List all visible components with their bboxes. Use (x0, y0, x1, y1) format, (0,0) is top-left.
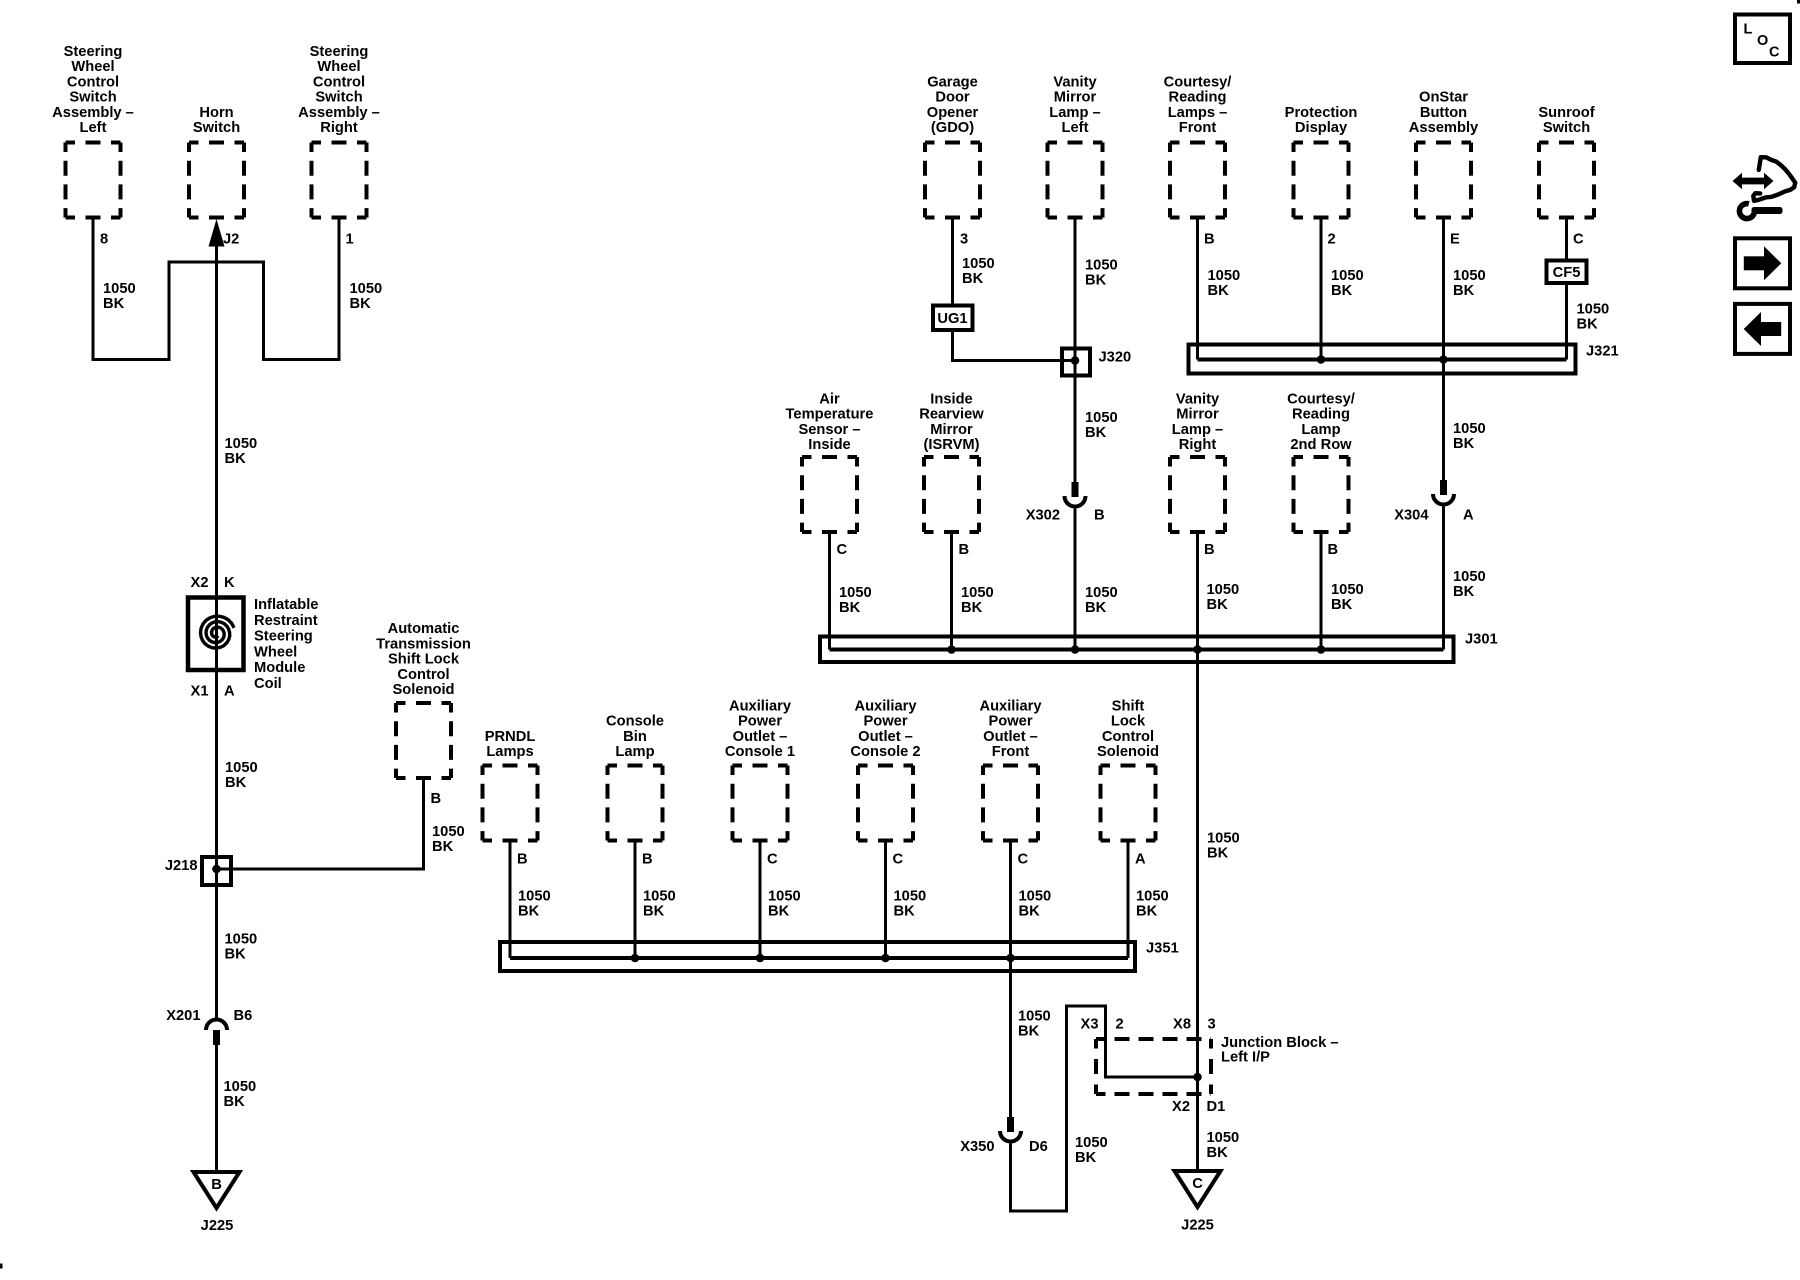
svg-text:1050: 1050 (225, 436, 258, 452)
wire label 1050 BK courtesy front (1208, 268, 1241, 299)
junction dot J351 aux console 1 (756, 954, 765, 963)
svg-text:BK: BK (1136, 904, 1158, 920)
component Garage Door Opener (GDO) (925, 74, 980, 217)
svg-text:D6: D6 (1029, 1139, 1048, 1155)
svg-text:Console 1: Console 1 (725, 744, 795, 760)
svg-text:Restraint: Restraint (254, 613, 318, 629)
wire label 1050 BK air temp (839, 585, 872, 616)
svg-text:X302: X302 (1026, 508, 1060, 524)
svg-text:1050: 1050 (894, 889, 927, 905)
svg-text:OnStar: OnStar (1419, 90, 1468, 106)
svg-text:D1: D1 (1207, 1099, 1226, 1115)
svg-text:Coil: Coil (254, 676, 282, 692)
svg-text:1050: 1050 (839, 585, 872, 601)
wire air temp to J301 (828, 532, 831, 650)
svg-text:Button: Button (1420, 105, 1467, 121)
wire label 1050 BK aux front (1019, 889, 1052, 920)
wire junction block to ground J225 C (1196, 1077, 1199, 1171)
svg-text:BK: BK (1331, 597, 1353, 613)
junction dot J321 onstar (1439, 355, 1448, 364)
wire label 1050 BK vanity left lower (1085, 585, 1118, 616)
splice J320 (1062, 349, 1131, 376)
svg-text:Lamp –: Lamp – (1049, 105, 1100, 121)
svg-text:J351: J351 (1146, 941, 1179, 957)
svg-text:Lamp: Lamp (615, 744, 654, 760)
svg-text:BK: BK (224, 1094, 246, 1110)
svg-text:Switch: Switch (193, 120, 240, 136)
wire label 1050 BK below J218 (225, 932, 258, 963)
svg-text:Control: Control (313, 74, 365, 90)
svg-text:C: C (837, 542, 848, 558)
wire label 1050 BK vanity left upper (1085, 258, 1118, 289)
svg-text:(GDO): (GDO) (931, 120, 974, 136)
svg-text:E: E (1450, 232, 1460, 248)
svg-text:Front: Front (992, 744, 1030, 760)
svg-text:1050: 1050 (1208, 268, 1241, 284)
svg-text:X3: X3 (1081, 1017, 1099, 1033)
svg-text:BK: BK (225, 775, 247, 791)
wire label 1050 BK shift lock (1136, 889, 1169, 920)
svg-text:Console: Console (606, 714, 664, 730)
wire CF5 to J321 (1565, 283, 1568, 360)
svg-text:1050: 1050 (1018, 1009, 1051, 1025)
svg-text:A: A (1463, 508, 1474, 524)
svg-text:Transmission: Transmission (376, 636, 471, 652)
wire prndl to J351 (509, 841, 512, 959)
wire label 1050 BK above J225 B (224, 1079, 257, 1110)
junction dot J351 aux console 2 (881, 954, 890, 963)
bus J351 (500, 941, 1179, 972)
svg-text:1050: 1050 (1085, 258, 1118, 274)
wire courtesy front to J321 (1196, 218, 1199, 360)
svg-text:Protection: Protection (1285, 105, 1358, 121)
svg-text:1050: 1050 (1453, 569, 1486, 585)
svg-text:Lamps –: Lamps – (1168, 105, 1228, 121)
wire label 1050 BK protection (1331, 268, 1364, 299)
svg-text:C: C (1192, 1176, 1203, 1192)
node X1 A (191, 684, 235, 700)
svg-text:A: A (1135, 852, 1146, 868)
svg-text:1050: 1050 (1085, 585, 1118, 601)
svg-text:C: C (767, 852, 778, 868)
svg-text:BK: BK (643, 904, 665, 920)
component Courtesy Reading Lamps - Front (1164, 74, 1232, 217)
wire X201 to ground J225 (215, 1045, 218, 1172)
wire label 1050 BK aux console 1 (768, 889, 801, 920)
svg-text:1050: 1050 (768, 889, 801, 905)
bus J301 (820, 632, 1498, 663)
connector X201 B6 (166, 1008, 252, 1045)
wire aux console 1 to J351 (759, 841, 762, 959)
svg-text:Steering: Steering (254, 629, 313, 645)
wire GDO to UG1 (951, 218, 954, 306)
svg-text:Switch: Switch (315, 90, 362, 106)
svg-text:1050: 1050 (225, 932, 258, 948)
option box UG1 (933, 306, 973, 331)
svg-text:Vanity: Vanity (1053, 74, 1097, 90)
svg-text:BK: BK (1207, 1145, 1229, 1161)
svg-text:C: C (1769, 45, 1780, 61)
wire label 1050 BK below junction block (1207, 1130, 1240, 1161)
svg-text:BK: BK (1453, 584, 1475, 600)
component PRNDL Lamps (483, 729, 538, 841)
svg-text:BK: BK (518, 904, 540, 920)
svg-text:2: 2 (1328, 232, 1336, 248)
svg-text:Opener: Opener (927, 105, 979, 121)
wire label 1050 BK onstar lower (1453, 569, 1486, 600)
svg-text:(ISRVM): (ISRVM) (923, 437, 979, 453)
svg-text:Control: Control (67, 74, 119, 90)
svg-text:Courtesy/: Courtesy/ (1164, 74, 1232, 90)
wire label 1050 BK below coil (225, 760, 258, 791)
junction dot J351 console bin (631, 954, 640, 963)
wire solenoid to J218 (217, 778, 424, 869)
svg-text:BK: BK (1453, 436, 1475, 452)
component Auxiliary Power Outlet - Front (979, 698, 1042, 840)
svg-text:J2: J2 (223, 232, 239, 248)
svg-text:J301: J301 (1465, 632, 1498, 648)
svg-text:Outlet –: Outlet – (858, 729, 913, 745)
svg-text:1050: 1050 (643, 889, 676, 905)
component Inside Rearview Mirror (ISRVM) (919, 391, 984, 532)
wire courtesy 2nd row to J301 (1320, 532, 1323, 650)
svg-text:X1: X1 (191, 684, 209, 700)
wire label 1050 BK console bin (643, 889, 676, 920)
svg-text:Horn: Horn (199, 105, 233, 121)
svg-text:BK: BK (1085, 273, 1107, 289)
svg-text:Front: Front (1179, 120, 1217, 136)
svg-text:Shift Lock: Shift Lock (388, 652, 460, 668)
svg-text:Wheel: Wheel (317, 59, 360, 75)
svg-text:Left: Left (80, 120, 107, 136)
component Courtesy Reading Lamp 2nd Row (1287, 391, 1355, 532)
svg-text:UG1: UG1 (937, 311, 967, 327)
svg-text:Inside: Inside (808, 437, 850, 453)
svg-text:3: 3 (960, 232, 968, 248)
wire protection display to J321 (1320, 218, 1323, 360)
svg-text:Assembly: Assembly (1409, 120, 1479, 136)
wire sunroof to CF5 (1565, 218, 1568, 261)
svg-text:1050: 1050 (1453, 268, 1486, 284)
svg-text:Right: Right (320, 120, 358, 136)
wire label 1050 BK vanity left mid (1085, 410, 1118, 441)
junction dot J301 isrvm (947, 645, 956, 654)
svg-text:Switch: Switch (69, 90, 116, 106)
svg-text:Steering: Steering (310, 44, 369, 60)
svg-text:1050: 1050 (962, 256, 995, 272)
svg-text:Temperature: Temperature (786, 407, 874, 423)
junction dot J301 courtesy 2nd row (1317, 645, 1326, 654)
component Shift Lock Control Solenoid (1097, 698, 1159, 840)
wire label 1050 BK horn (225, 436, 258, 467)
junction dot J301 vanity right (1193, 645, 1202, 654)
svg-text:1050: 1050 (1136, 889, 1169, 905)
component Vanity Mirror Lamp - Right (1170, 391, 1225, 532)
component Sunroof Switch (1538, 105, 1594, 218)
svg-text:BK: BK (1207, 597, 1229, 613)
icon arrow right box (1735, 238, 1790, 288)
wire label 1050 BK long wire (1207, 831, 1240, 862)
svg-text:1050: 1050 (1207, 1130, 1240, 1146)
svg-text:Garage: Garage (927, 74, 978, 90)
svg-text:Reading: Reading (1292, 407, 1350, 423)
svg-text:Power: Power (863, 714, 907, 730)
wire aux front to J351 (1009, 841, 1012, 959)
svg-text:2: 2 (1116, 1017, 1124, 1033)
svg-text:1050: 1050 (518, 889, 551, 905)
svg-text:Left I/P: Left I/P (1221, 1050, 1270, 1066)
junction dot J301 vanity left (1071, 645, 1080, 654)
component Steering Wheel Control Switch Assembly - Left (52, 44, 134, 218)
junction block pin labels X8 3 (1173, 1017, 1216, 1033)
wire label 1050 BK prndl (518, 889, 551, 920)
wire label 1050 BK right (350, 281, 383, 312)
wire shift lock to J351 (1127, 841, 1130, 959)
wire label 1050 BK sunroof (1577, 302, 1610, 333)
wire label 1050 BK onstar mid (1453, 421, 1486, 452)
svg-text:X2: X2 (191, 575, 209, 591)
component Inflatable Restraint Steering Wheel Module Coil (188, 597, 318, 692)
ground J225 B (194, 1172, 240, 1234)
svg-text:BK: BK (1207, 846, 1229, 862)
wire X304 to J301 (1442, 507, 1445, 650)
svg-text:1050: 1050 (1207, 831, 1240, 847)
wire Vanity L down to X302 (1074, 218, 1077, 483)
svg-text:Assembly –: Assembly – (298, 105, 380, 121)
svg-text:B: B (1094, 508, 1105, 524)
svg-text:Outlet –: Outlet – (983, 729, 1038, 745)
svg-text:BK: BK (432, 839, 454, 855)
svg-text:Lamp: Lamp (1301, 422, 1340, 438)
svg-text:Display: Display (1295, 120, 1348, 136)
svg-text:L: L (1744, 22, 1753, 38)
wire UG1 to J320 (953, 330, 1076, 361)
wire label 1050 BK right of X350 (1075, 1135, 1108, 1166)
svg-text:Lock: Lock (1111, 714, 1146, 730)
svg-text:O: O (1757, 33, 1768, 49)
svg-text:C: C (893, 852, 904, 868)
svg-text:C: C (1573, 232, 1584, 248)
svg-text:1050: 1050 (961, 585, 994, 601)
svg-text:Control: Control (397, 667, 449, 683)
connector X350 D6 (960, 1117, 1048, 1155)
svg-text:1050: 1050 (1453, 421, 1486, 437)
svg-text:Right: Right (1179, 437, 1217, 453)
svg-text:Auxiliary: Auxiliary (729, 698, 792, 714)
svg-text:3: 3 (1208, 1017, 1216, 1033)
svg-text:BK: BK (1331, 283, 1353, 299)
svg-text:BK: BK (768, 904, 790, 920)
wire aux front through J351 down to X350 (1009, 958, 1012, 1117)
svg-text:Lamp –: Lamp – (1172, 422, 1223, 438)
wire X350 up into junction block X3 pin 2 (1011, 1006, 1198, 1211)
junction dot J321 protection (1317, 355, 1326, 364)
svg-text:B: B (642, 852, 653, 868)
svg-text:BK: BK (962, 271, 984, 287)
svg-text:Wheel: Wheel (71, 59, 114, 75)
svg-text:BK: BK (839, 600, 861, 616)
svg-text:BK: BK (1577, 317, 1599, 333)
icon LOC box (1735, 15, 1790, 64)
svg-text:Automatic: Automatic (388, 621, 460, 637)
svg-text:B: B (1328, 542, 1339, 558)
component Horn Switch (189, 105, 244, 218)
svg-text:Power: Power (738, 714, 782, 730)
svg-text:C: C (1018, 852, 1029, 868)
svg-text:Wheel: Wheel (254, 644, 297, 660)
svg-text:1050: 1050 (225, 760, 258, 776)
svg-text:BK: BK (1019, 904, 1041, 920)
wire vanity right long down to junction block (1196, 650, 1199, 1078)
svg-text:Mirror: Mirror (1176, 407, 1219, 423)
svg-text:Module: Module (254, 660, 305, 676)
svg-text:Auxiliary: Auxiliary (854, 698, 917, 714)
wire aux console 2 to J351 (884, 841, 887, 959)
svg-text:Door: Door (935, 90, 970, 106)
svg-text:1050: 1050 (1085, 410, 1118, 426)
svg-text:Lamps: Lamps (486, 744, 533, 760)
component Console Bin Lamp (606, 714, 664, 841)
svg-text:1050: 1050 (432, 824, 465, 840)
svg-text:1050: 1050 (1331, 268, 1364, 284)
svg-text:J321: J321 (1586, 344, 1619, 360)
svg-text:J225: J225 (201, 1218, 234, 1234)
page artifact bottom left corner (0, 1264, 3, 1269)
component Auxiliary Power Outlet - Console 1 (725, 698, 795, 840)
svg-text:Mirror: Mirror (1054, 90, 1097, 106)
junction block - left I/P dashed box (1096, 1035, 1339, 1094)
wire console bin to J351 (634, 841, 637, 959)
svg-text:BK: BK (1085, 425, 1107, 441)
svg-text:Mirror: Mirror (930, 422, 973, 438)
svg-text:Bin: Bin (623, 729, 647, 745)
wire isrvm to J301 (950, 532, 953, 650)
svg-text:Switch: Switch (1543, 120, 1590, 136)
svg-text:Shift: Shift (1112, 698, 1145, 714)
wire steering switches to horn node (93, 218, 339, 360)
svg-text:X2: X2 (1172, 1099, 1190, 1115)
component Vanity Mirror Lamp - Left (1048, 74, 1103, 217)
svg-text:CF5: CF5 (1553, 265, 1581, 281)
svg-text:2nd Row: 2nd Row (1290, 437, 1352, 453)
page artifact top right corner (1797, 0, 1800, 4)
svg-text:8: 8 (100, 232, 108, 248)
svg-text:BK: BK (350, 296, 372, 312)
component Air Temperature Sensor - Inside (786, 391, 874, 532)
svg-text:1050: 1050 (350, 281, 383, 297)
svg-text:BK: BK (1208, 283, 1230, 299)
svg-text:Left: Left (1062, 120, 1089, 136)
svg-text:X350: X350 (960, 1139, 994, 1155)
svg-text:B: B (1204, 232, 1215, 248)
svg-text:BK: BK (103, 296, 125, 312)
svg-text:BK: BK (1085, 600, 1107, 616)
wire label 1050 BK courtesy 2nd row (1331, 582, 1364, 613)
svg-text:1: 1 (346, 232, 354, 248)
wire label 1050 BK above X350 (1018, 1009, 1051, 1040)
svg-text:Solenoid: Solenoid (1097, 744, 1159, 760)
svg-text:J218: J218 (165, 858, 198, 874)
option box CF5 (1547, 261, 1587, 284)
wire label 1050 BK vanity right (1207, 582, 1240, 613)
svg-text:X201: X201 (166, 1008, 200, 1024)
icon arrow left box (1735, 304, 1790, 354)
svg-text:Inside: Inside (930, 391, 972, 407)
svg-text:Vanity: Vanity (1176, 391, 1220, 407)
svg-text:J320: J320 (1099, 350, 1132, 366)
component OnStar Button Assembly (1409, 90, 1479, 218)
junction dot inside junction block (1193, 1073, 1202, 1082)
svg-text:B6: B6 (234, 1008, 253, 1024)
wire label 1050 BK onstar upper (1453, 268, 1486, 299)
svg-text:Control: Control (1102, 729, 1154, 745)
wire label 1050 BK aux console 2 (894, 889, 927, 920)
svg-text:B: B (959, 542, 970, 558)
svg-text:PRNDL: PRNDL (485, 729, 536, 745)
svg-text:A: A (224, 684, 235, 700)
wire vanity right to J301 (1196, 532, 1199, 650)
wire horn switch down to X201 (215, 244, 218, 1018)
svg-text:BK: BK (1453, 283, 1475, 299)
wire label 1050 BK isrvm (961, 585, 994, 616)
junction block pin labels X2 D1 (1172, 1099, 1225, 1115)
svg-text:Assembly –: Assembly – (52, 105, 134, 121)
svg-text:B: B (517, 852, 528, 868)
wire OnStar down to X304 (1442, 218, 1445, 481)
svg-text:J225: J225 (1181, 1218, 1214, 1234)
svg-text:Power: Power (988, 714, 1032, 730)
svg-text:BK: BK (1018, 1024, 1040, 1040)
svg-text:Auxiliary: Auxiliary (979, 698, 1042, 714)
svg-text:B: B (1204, 542, 1215, 558)
connector X304 A (1394, 480, 1474, 524)
svg-text:Reading: Reading (1169, 90, 1227, 106)
svg-text:1050: 1050 (1075, 1135, 1108, 1151)
svg-text:Outlet –: Outlet – (733, 729, 788, 745)
component Automatic Transmission Shift Lock Control Solenoid (376, 621, 471, 778)
junction block pin labels X3 2 (1081, 1017, 1124, 1033)
svg-text:Steering: Steering (64, 44, 123, 60)
wire label 1050 BK solenoid (432, 824, 465, 855)
ground J225 C (1175, 1171, 1221, 1234)
svg-text:Solenoid: Solenoid (392, 682, 454, 698)
svg-text:Rearview: Rearview (919, 407, 984, 423)
wire label 1050 BK GDO (962, 256, 995, 287)
svg-text:X304: X304 (1394, 508, 1429, 524)
bus J321 (1189, 344, 1619, 374)
svg-text:BK: BK (961, 600, 983, 616)
component Auxiliary Power Outlet - Console 2 (850, 698, 920, 840)
svg-text:BK: BK (225, 947, 247, 963)
svg-text:1050: 1050 (224, 1079, 257, 1095)
svg-text:Courtesy/: Courtesy/ (1287, 391, 1355, 407)
component Steering Wheel Control Switch Assembly - Right (298, 44, 380, 218)
svg-text:1050: 1050 (103, 281, 136, 297)
svg-text:BK: BK (1075, 1150, 1097, 1166)
svg-text:1050: 1050 (1207, 582, 1240, 598)
svg-text:1050: 1050 (1019, 889, 1052, 905)
connector X302 B (1026, 482, 1105, 524)
svg-text:BK: BK (894, 904, 916, 920)
svg-text:Sensor –: Sensor – (798, 422, 860, 438)
wire X302 to J301 (1074, 509, 1077, 650)
wire OnStar through J321 (1442, 360, 1445, 481)
arrowhead into horn switch J2 (209, 219, 225, 247)
svg-text:K: K (224, 575, 235, 591)
splice J218 (165, 857, 231, 885)
svg-text:B: B (431, 791, 442, 807)
node X2 K (191, 575, 235, 591)
